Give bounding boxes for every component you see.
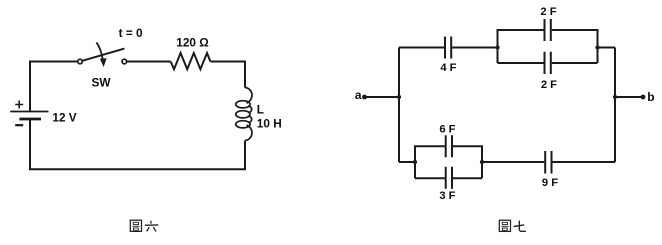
capacitor 3F — [446, 167, 452, 189]
switch SW — [78, 42, 127, 67]
terminal b — [641, 95, 646, 100]
svg-text:2 F: 2 F — [540, 6, 556, 18]
battery negative plate (short) — [19, 118, 41, 121]
svg-text:SW: SW — [91, 75, 111, 89]
minus sign — [15, 124, 23, 126]
wire bottom block to 9F — [482, 161, 544, 163]
terminal a — [362, 95, 367, 100]
junction bottom block left — [413, 160, 417, 164]
svg-text:b: b — [647, 90, 654, 104]
junction parallel block left — [495, 45, 499, 49]
wire bottom block frame top — [415, 146, 482, 178]
wire left bus — [398, 48, 400, 163]
plus sign — [15, 101, 23, 109]
junction bottom block right — [480, 160, 484, 164]
junction right bus — [613, 95, 617, 99]
svg-text:2 F: 2 F — [541, 79, 557, 91]
wire right side bottom and bottom and left-lower — [30, 120, 245, 169]
svg-text:6 F: 6 F — [439, 124, 455, 136]
capacitor 2F bottom — [545, 52, 551, 74]
svg-text:L: L — [257, 103, 264, 117]
wire 9F to right bus — [553, 161, 616, 163]
wire resistor to top-right corner — [210, 62, 245, 88]
svg-text:9 F: 9 F — [542, 177, 558, 189]
wire right bus to b — [615, 96, 643, 98]
wire parallel block frame bottom — [498, 62, 598, 64]
svg-text:t = 0: t = 0 — [119, 26, 143, 40]
capacitor 9F — [545, 151, 551, 174]
wire parallel block to right bus — [598, 47, 616, 49]
svg-text:a: a — [355, 88, 362, 102]
caption 圖七 (figure seven) — [499, 220, 526, 231]
svg-text:4 F: 4 F — [440, 62, 456, 74]
svg-text:3 F: 3 F — [439, 190, 455, 202]
wire top branch left — [399, 47, 444, 49]
wire 4F to parallel block — [452, 47, 497, 49]
wire switch to resistor — [127, 61, 171, 63]
inductor L coil — [236, 88, 252, 141]
wire bottom block frame bottom — [415, 177, 482, 179]
resistor R 120 ohm — [171, 53, 211, 69]
wire right bus — [614, 48, 616, 163]
capacitor 4F — [445, 37, 451, 59]
junction left bus — [397, 95, 401, 99]
wire a to left bus — [365, 96, 400, 98]
svg-text:10 H: 10 H — [257, 116, 282, 130]
svg-text:12 V: 12 V — [52, 111, 76, 125]
capacitor 2F top — [545, 19, 551, 41]
svg-text:120 Ω: 120 Ω — [176, 35, 208, 49]
battery positive plate (long) — [10, 111, 48, 113]
wire top-left and left-upper (figure 6) — [30, 62, 77, 112]
junction parallel block right — [595, 45, 599, 49]
wire bottom branch left — [399, 161, 415, 163]
capacitor 6F — [446, 135, 452, 157]
caption 圖六 (figure six) — [130, 220, 158, 231]
wire parallel block frame top — [498, 30, 598, 63]
